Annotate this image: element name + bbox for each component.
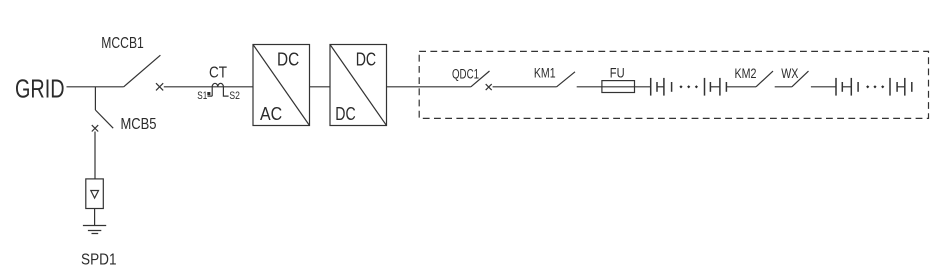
wire FU to battery string 1 (635, 86, 651, 88)
contactor KM1 (534, 66, 575, 87)
svg-text:FU: FU (610, 66, 625, 81)
wire between converters (310, 86, 331, 88)
svg-text:KM1: KM1 (534, 66, 556, 81)
contact x MCB5 (92, 125, 98, 131)
svg-text:CT: CT (209, 65, 227, 82)
battery cabinet dashed enclosure (419, 51, 928, 118)
svg-text:SPD1: SPD1 (81, 252, 117, 269)
disconnector QDC1 (452, 66, 490, 87)
wire to CT and inverter (164, 86, 253, 88)
svg-text:MCCB1: MCCB1 (101, 35, 144, 52)
wire battery string 1 to KM2 (726, 86, 756, 88)
wire KM2 to WX (775, 86, 792, 88)
svg-text:DC: DC (335, 103, 355, 124)
wire DC/DC to QDC1 (387, 86, 471, 88)
svg-text:DC: DC (277, 49, 299, 70)
svg-text:DC: DC (356, 49, 376, 70)
breaker MCCB1 (101, 35, 160, 87)
battery string 2 (836, 78, 912, 96)
ground (83, 226, 106, 234)
contact x QDC1 (486, 84, 492, 90)
wire junction drop (94, 87, 96, 110)
current transformer CT (197, 65, 240, 102)
wire SPD to ground (94, 209, 96, 226)
svg-text:AC: AC (260, 103, 282, 124)
svg-text:WX: WX (781, 66, 798, 81)
svg-text:MCB5: MCB5 (121, 116, 157, 133)
svg-text:QDC1: QDC1 (452, 66, 479, 81)
svg-text:S1: S1 (197, 90, 207, 102)
wire QDC1 to KM1 (493, 86, 557, 88)
fuse FU (602, 66, 635, 93)
wire KM1 to FU (577, 86, 602, 88)
contactor KM2 (735, 66, 774, 87)
wire WX to battery string 2 (811, 86, 836, 88)
svg-text:KM2: KM2 (735, 66, 757, 81)
contact x MCCB1 (156, 83, 163, 90)
converter DC/AC U1 (253, 45, 310, 126)
breaker MCB5 (95, 110, 156, 133)
svg-text:S2: S2 (229, 90, 240, 102)
contactor WX (781, 66, 808, 87)
svg-text:GRID: GRID (15, 74, 65, 104)
battery string 1 (651, 78, 727, 96)
wire to SPD (94, 132, 96, 179)
wire grid bus (67, 86, 124, 88)
surge protector SPD1 (81, 179, 117, 269)
converter DC/DC U2 (330, 45, 387, 126)
